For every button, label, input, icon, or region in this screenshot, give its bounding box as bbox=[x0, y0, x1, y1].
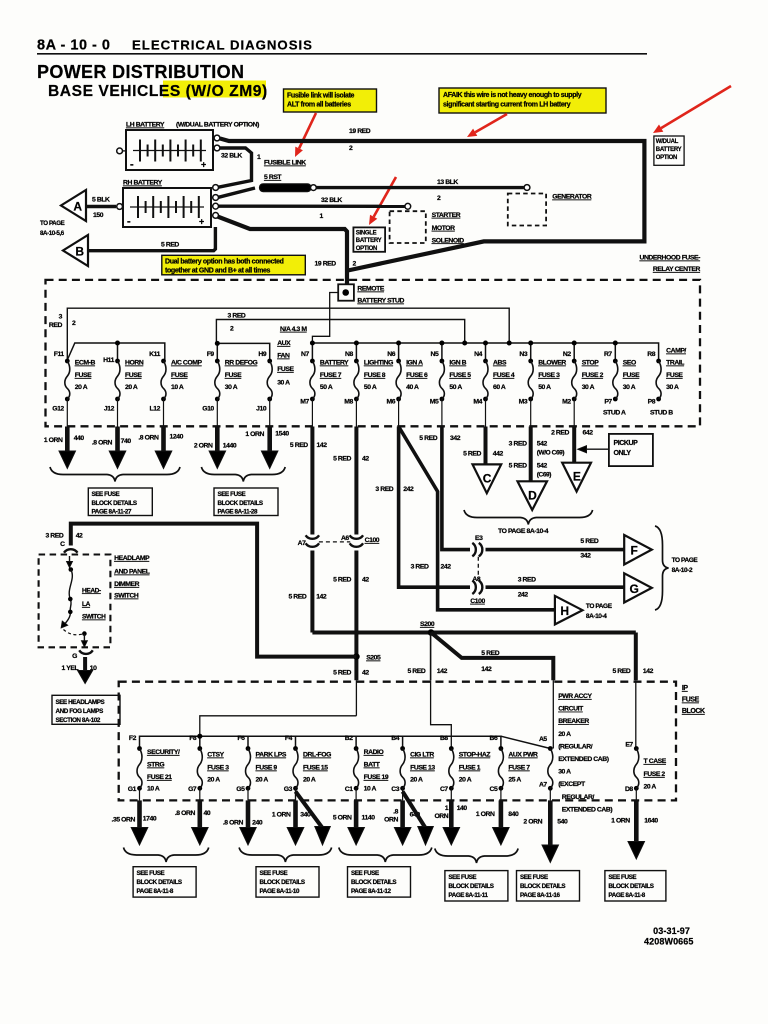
svg-text:C5: C5 bbox=[490, 786, 498, 793]
svg-text:FUSE 21: FUSE 21 bbox=[147, 774, 172, 781]
svg-text:R7: R7 bbox=[604, 351, 612, 358]
svg-text:AFAIK this wire is not heavy e: AFAIK this wire is not heavy enough to s… bbox=[443, 92, 582, 99]
svg-text:A8: A8 bbox=[472, 576, 480, 583]
svg-text:TRAIL: TRAIL bbox=[666, 360, 684, 367]
svg-text:BASE VEHICLES (W/O ZM9): BASE VEHICLES (W/O ZM9) bbox=[48, 83, 268, 100]
svg-text:N2: N2 bbox=[563, 351, 571, 358]
svg-text:C3: C3 bbox=[391, 786, 399, 793]
svg-text:E7: E7 bbox=[625, 742, 633, 749]
fuse N2/M2 STOP bbox=[572, 359, 577, 364]
yellow highlight W/O ZM9 bbox=[163, 81, 266, 98]
fusible link bbox=[218, 188, 255, 197]
svg-text:2 ORN: 2 ORN bbox=[523, 819, 542, 826]
arrow L12 .8 ORN 1240 bbox=[163, 399, 165, 427]
svg-text:C100: C100 bbox=[365, 537, 380, 544]
svg-text:1540: 1540 bbox=[275, 431, 289, 438]
fuse H9/J10 AUX bbox=[267, 359, 272, 364]
svg-text:SEE FUSE: SEE FUSE bbox=[520, 874, 548, 881]
arrow G10 2 ORN 1440 bbox=[216, 399, 218, 427]
fuse F9/G10 RR DEFOG bbox=[215, 359, 220, 364]
svg-text:RED: RED bbox=[49, 322, 63, 329]
svg-text:STUD B: STUD B bbox=[650, 410, 673, 417]
svg-text:BLOCK DETAILS: BLOCK DETAILS bbox=[218, 500, 263, 507]
svg-text:5 RED: 5 RED bbox=[333, 670, 351, 677]
svg-text:F8: F8 bbox=[189, 735, 197, 742]
see headlamps box bbox=[52, 695, 120, 724]
svg-text:BLOCK DETAILS: BLOCK DETAILS bbox=[137, 879, 182, 886]
svg-text:4208W0665: 4208W0665 bbox=[644, 936, 693, 946]
svg-text:BATTERY STUD: BATTERY STUD bbox=[357, 298, 404, 305]
svg-text:G: G bbox=[72, 653, 77, 660]
svg-text:20 A: 20 A bbox=[125, 384, 138, 391]
svg-text:FUSE 2: FUSE 2 bbox=[582, 372, 604, 379]
svg-text:N8: N8 bbox=[345, 351, 353, 358]
svg-text:CIRCUIT: CIRCUIT bbox=[558, 706, 584, 713]
svg-text:BREAKER: BREAKER bbox=[558, 718, 589, 725]
svg-text:5 RED: 5 RED bbox=[463, 451, 481, 458]
svg-text:HEADLAMP: HEADLAMP bbox=[114, 555, 150, 562]
svg-text:SWITCH: SWITCH bbox=[82, 614, 106, 621]
svg-text:A: A bbox=[73, 200, 82, 214]
svg-text:BLOWER: BLOWER bbox=[538, 360, 566, 367]
triangle H to page 8A-10-4 bbox=[555, 596, 583, 625]
svg-text:50 A: 50 A bbox=[449, 384, 462, 391]
triangle D bbox=[518, 481, 548, 510]
brace 8A-11-11 bbox=[435, 849, 518, 864]
svg-text:N4: N4 bbox=[474, 351, 482, 358]
svg-text:N6: N6 bbox=[387, 351, 395, 358]
svg-text:SECURITY/: SECURITY/ bbox=[147, 749, 180, 756]
arrow G5 .8 ORN 240 bbox=[247, 788, 249, 800]
fuse R7/P7 SEO bbox=[613, 359, 618, 364]
brace 8A-11-12 bbox=[339, 848, 432, 863]
svg-text:PAGE 8A-11-8: PAGE 8A-11-8 bbox=[608, 892, 645, 899]
wire M6 3 RED 242 straight to A8 bbox=[398, 399, 400, 427]
triangle B bbox=[63, 235, 88, 266]
fuse F8/G7 CTSY bbox=[197, 746, 202, 751]
svg-text:FUSE 9: FUSE 9 bbox=[256, 765, 278, 772]
svg-text:POWER DISTRIBUTION: POWER DISTRIBUTION bbox=[37, 62, 244, 82]
svg-text:840: 840 bbox=[508, 811, 519, 818]
svg-text:142: 142 bbox=[316, 594, 327, 601]
svg-text:OPTION: OPTION bbox=[356, 246, 377, 252]
svg-text:CAMP/: CAMP/ bbox=[666, 348, 686, 355]
fuse N3/M3 BLOWER bbox=[528, 359, 533, 364]
svg-text:B: B bbox=[75, 245, 84, 259]
svg-text:N7: N7 bbox=[301, 351, 309, 358]
svg-text:PWR ACCY: PWR ACCY bbox=[558, 693, 592, 700]
svg-text:.35 ORN: .35 ORN bbox=[111, 817, 135, 824]
brace 8A-11-8 bbox=[124, 848, 209, 863]
svg-text:642: 642 bbox=[583, 430, 594, 437]
feeder wire 3 RED 2 (line A) bbox=[67, 308, 509, 360]
svg-text:342: 342 bbox=[450, 435, 461, 442]
brace to page 8A-10-2 bbox=[655, 526, 669, 610]
splice S205 bbox=[353, 653, 360, 660]
box page 8A-11-11 bbox=[445, 871, 508, 901]
wire M7 5 RED 142 bbox=[311, 399, 313, 427]
svg-text:M8: M8 bbox=[344, 399, 353, 406]
svg-text:EXTENDED CAB): EXTENDED CAB) bbox=[558, 756, 609, 763]
svg-text:BLOCK: BLOCK bbox=[682, 708, 705, 715]
svg-text:LH BATTERY: LH BATTERY bbox=[126, 122, 165, 129]
svg-text:A7: A7 bbox=[298, 540, 306, 547]
fuse F4/G3 DRL-FOG bbox=[293, 746, 298, 751]
brace fuse details 8A-11-28 bbox=[201, 467, 285, 482]
svg-text:3 RED: 3 RED bbox=[45, 533, 63, 540]
fuse N5/M5 IGN B bbox=[440, 359, 445, 364]
box page 8A-11-16 bbox=[517, 871, 580, 901]
svg-text:J10: J10 bbox=[256, 406, 267, 413]
svg-text:H9: H9 bbox=[258, 351, 266, 358]
svg-text:FUSE 7: FUSE 7 bbox=[320, 372, 342, 379]
svg-text:N5: N5 bbox=[431, 351, 439, 358]
svg-text:FUSIBLE LINK: FUSIBLE LINK bbox=[264, 160, 306, 167]
svg-text:32 BLK: 32 BLK bbox=[221, 153, 242, 160]
svg-text:3 RED: 3 RED bbox=[375, 486, 393, 493]
wire E3 to F bbox=[486, 548, 625, 552]
brace 8A-11-10 bbox=[239, 848, 332, 863]
fuse B4/C3 CIG LTR bbox=[400, 746, 405, 751]
svg-text:ONLY: ONLY bbox=[614, 450, 632, 457]
fuse F6/G5 PARK LPS bbox=[246, 746, 251, 751]
svg-text:C: C bbox=[60, 541, 65, 548]
svg-text:ORN: ORN bbox=[434, 813, 448, 820]
fuse R8/P8 CAMP/ bbox=[656, 359, 661, 364]
svg-text:M5: M5 bbox=[430, 399, 439, 406]
svg-text:S200: S200 bbox=[420, 621, 435, 628]
svg-text:5 RED: 5 RED bbox=[288, 594, 306, 601]
svg-text:FUSE: FUSE bbox=[171, 372, 188, 379]
see fuse block details 8A-11-27 box bbox=[88, 488, 152, 516]
triangle G bbox=[624, 573, 652, 602]
svg-text:2 RED: 2 RED bbox=[551, 430, 569, 437]
connector C headlamp feed bbox=[64, 549, 78, 553]
svg-text:ELECTRICAL DIAGNOSIS: ELECTRICAL DIAGNOSIS bbox=[132, 38, 313, 53]
svg-text:.8 ORN: .8 ORN bbox=[223, 820, 244, 827]
svg-text:N/A 4.3 M: N/A 4.3 M bbox=[280, 326, 307, 333]
svg-text:20 A: 20 A bbox=[207, 777, 220, 784]
svg-text:FUSE 5: FUSE 5 bbox=[449, 372, 471, 379]
svg-text:40 A: 40 A bbox=[406, 384, 419, 391]
svg-text:CTSY: CTSY bbox=[207, 752, 224, 759]
svg-text:MOTOR: MOTOR bbox=[432, 225, 456, 232]
svg-text:5 ORN: 5 ORN bbox=[333, 815, 352, 822]
svg-text:142: 142 bbox=[317, 442, 328, 449]
svg-text:ECM-B: ECM-B bbox=[75, 360, 96, 367]
svg-text:BLOCK DETAILS: BLOCK DETAILS bbox=[92, 500, 137, 507]
arrow J10 1 ORN 1540 bbox=[269, 399, 271, 427]
svg-text:3 RED: 3 RED bbox=[518, 577, 536, 584]
svg-text:significant starting current f: significant starting current from LH bat… bbox=[443, 102, 571, 109]
fuse B6/C5 AUX PWR bbox=[499, 746, 504, 751]
svg-text:5 RED: 5 RED bbox=[481, 650, 499, 657]
svg-text:PAGE 8A-11-8: PAGE 8A-11-8 bbox=[137, 888, 174, 895]
svg-text:20 A: 20 A bbox=[75, 384, 88, 391]
svg-text:03-31-97: 03-31-97 bbox=[653, 926, 690, 936]
svg-text:8A - 10 - 0: 8A - 10 - 0 bbox=[37, 38, 110, 54]
svg-text:(C69): (C69) bbox=[537, 472, 551, 479]
svg-text:E: E bbox=[573, 470, 581, 484]
svg-text:M6: M6 bbox=[386, 399, 395, 406]
svg-text:42: 42 bbox=[362, 670, 369, 677]
svg-text:.8: .8 bbox=[393, 809, 398, 816]
svg-text:J12: J12 bbox=[104, 406, 115, 413]
svg-text:BATTERY: BATTERY bbox=[656, 147, 682, 153]
triangle F to page 8A-10-2 bbox=[624, 535, 652, 565]
svg-text:AND FOG LAMPS: AND FOG LAMPS bbox=[56, 708, 104, 715]
fuse K11/L12 A/C COMP bbox=[161, 359, 166, 364]
wire M5 5 RED 342 to E3 bbox=[441, 399, 443, 427]
svg-text:RR DEFOG: RR DEFOG bbox=[225, 360, 258, 367]
svg-text:5 BLK: 5 BLK bbox=[92, 197, 110, 204]
svg-text:AUX PWR: AUX PWR bbox=[508, 752, 538, 759]
svg-text:F11: F11 bbox=[54, 351, 65, 358]
svg-text:1 YEL: 1 YEL bbox=[62, 665, 79, 672]
svg-text:FUSE 6: FUSE 6 bbox=[406, 372, 428, 379]
svg-text:BLOCK DETAILS: BLOCK DETAILS bbox=[351, 879, 396, 886]
svg-text:50 A: 50 A bbox=[320, 384, 333, 391]
arrow C1 5 ORN 1140 bbox=[355, 788, 357, 800]
svg-text:20 A: 20 A bbox=[459, 777, 472, 784]
wire S205 to headlamp switch bbox=[71, 524, 357, 657]
wire M3 3 RED 542 bbox=[530, 399, 532, 427]
svg-text:SECTION 8A-102: SECTION 8A-102 bbox=[56, 717, 101, 724]
wire 32 BLK RH to starter solenoid bbox=[219, 204, 405, 208]
svg-text:FUSE 15: FUSE 15 bbox=[303, 765, 328, 772]
svg-text:BATTERY: BATTERY bbox=[356, 238, 382, 244]
arrow C5 1 ORN 840 bbox=[500, 788, 502, 800]
svg-text:SWITCH: SWITCH bbox=[114, 593, 139, 600]
IP fuse block dashed box bbox=[119, 682, 676, 801]
svg-text:19 RED: 19 RED bbox=[315, 261, 337, 268]
svg-text:10 A: 10 A bbox=[364, 786, 377, 793]
svg-text:REGULAR/: REGULAR/ bbox=[562, 794, 595, 801]
svg-text:5 RED: 5 RED bbox=[161, 242, 179, 249]
svg-text:30 A: 30 A bbox=[225, 384, 238, 391]
svg-text:30 A: 30 A bbox=[277, 380, 290, 387]
svg-text:G1: G1 bbox=[128, 786, 137, 793]
svg-text:5 RED: 5 RED bbox=[509, 463, 527, 470]
svg-text:5 RST: 5 RST bbox=[264, 174, 282, 181]
svg-text:D: D bbox=[528, 489, 537, 503]
svg-text:Dual battery option has both c: Dual battery option has both connected bbox=[165, 258, 284, 265]
svg-text:FUSE 3: FUSE 3 bbox=[538, 372, 560, 379]
svg-text:F2: F2 bbox=[129, 735, 137, 742]
fuse B8/C7 STOP-HAZ bbox=[449, 746, 454, 751]
svg-text:A6: A6 bbox=[341, 535, 349, 542]
wire 19 RED loop (LH battery to stud) bbox=[220, 139, 644, 271]
connector A8 C100 bbox=[472, 581, 476, 595]
svg-text:3 RED: 3 RED bbox=[228, 313, 246, 320]
brace under C D E bbox=[464, 510, 593, 525]
svg-text:G12: G12 bbox=[52, 406, 64, 413]
svg-text:19 RED: 19 RED bbox=[349, 128, 371, 135]
fuse E7/D8 T CASE bbox=[634, 746, 639, 751]
arrow G1 .35 ORN 1740 bbox=[139, 788, 141, 800]
pickup only pointer arrow bbox=[586, 448, 609, 450]
pickup only box bbox=[609, 434, 653, 466]
svg-text:5 RED: 5 RED bbox=[580, 538, 598, 545]
wire 13 BLK to generator bbox=[316, 186, 523, 189]
svg-text:20 A: 20 A bbox=[303, 777, 316, 784]
box page 8A-11-10 bbox=[256, 867, 319, 897]
circuit breaker A5/A7 PWR ACCY bbox=[548, 746, 553, 751]
arrow G3 1 ORN 340 bbox=[295, 788, 297, 800]
svg-text:SEE HEADLAMPS: SEE HEADLAMPS bbox=[56, 699, 105, 706]
svg-text:ORN: ORN bbox=[384, 817, 398, 824]
svg-text:1240: 1240 bbox=[170, 434, 184, 441]
svg-text:OPTION: OPTION bbox=[656, 155, 677, 161]
svg-text:FUSE 7: FUSE 7 bbox=[508, 765, 530, 772]
fuse F11/G12 ECM-B bbox=[65, 359, 70, 364]
svg-text:(EXCEPT: (EXCEPT bbox=[558, 781, 586, 788]
svg-text:140: 140 bbox=[457, 805, 468, 812]
fuse N7/M7 BATTERY bbox=[310, 359, 315, 364]
svg-text:SEE FUSE: SEE FUSE bbox=[260, 870, 288, 877]
fuse N6/M6 IGN A bbox=[396, 359, 401, 364]
svg-text:42: 42 bbox=[362, 456, 369, 463]
svg-text:1 ORN: 1 ORN bbox=[272, 812, 291, 819]
svg-text:25 A: 25 A bbox=[508, 777, 521, 784]
svg-text:A5: A5 bbox=[539, 736, 547, 743]
svg-text:A/C COMP: A/C COMP bbox=[171, 360, 203, 367]
svg-text:42: 42 bbox=[76, 533, 83, 540]
svg-text:30 A: 30 A bbox=[623, 384, 636, 391]
wire 5 BLK 150 bbox=[86, 205, 116, 208]
svg-text:together at GND and B+ at all: together at GND and B+ at all times bbox=[165, 267, 270, 274]
svg-text:.8 ORN: .8 ORN bbox=[92, 440, 113, 447]
svg-text:M3: M3 bbox=[519, 399, 528, 406]
svg-text:SEE FUSE: SEE FUSE bbox=[137, 870, 165, 877]
svg-text:K11: K11 bbox=[149, 351, 160, 358]
svg-text:STUD A: STUD A bbox=[603, 410, 626, 417]
bus segment 3 (N7-R8) bbox=[312, 343, 658, 361]
svg-text:SEE FUSE: SEE FUSE bbox=[448, 874, 476, 881]
svg-text:5 RED: 5 RED bbox=[290, 442, 308, 449]
note: AFAIK this wire bbox=[439, 88, 606, 113]
svg-text:PARK LPS: PARK LPS bbox=[256, 752, 287, 759]
svg-text:DIMMER: DIMMER bbox=[114, 581, 140, 588]
note: dual battery option bbox=[162, 255, 305, 274]
splice S200 bbox=[428, 629, 435, 636]
svg-text:ABS: ABS bbox=[493, 360, 507, 367]
wire S200 down to B8 feed bbox=[430, 633, 432, 681]
svg-text:FUSE 19: FUSE 19 bbox=[364, 774, 389, 781]
svg-text:FUSE: FUSE bbox=[225, 372, 242, 379]
svg-text:C7: C7 bbox=[440, 786, 448, 793]
svg-text:TO PAGE: TO PAGE bbox=[586, 603, 613, 610]
svg-text:HEAD-: HEAD- bbox=[82, 587, 101, 594]
svg-text:B4: B4 bbox=[391, 735, 399, 742]
svg-text:M7: M7 bbox=[300, 399, 309, 406]
svg-text:SEO: SEO bbox=[623, 360, 636, 367]
svg-text:FAN: FAN bbox=[277, 353, 290, 360]
svg-text:1640: 1640 bbox=[644, 818, 658, 825]
svg-text:1 ORN: 1 ORN bbox=[245, 431, 264, 438]
arrow G12 1 ORN 440 bbox=[66, 399, 68, 427]
wire S205 to IP bus bbox=[355, 680, 357, 716]
svg-text:30 A: 30 A bbox=[558, 769, 571, 776]
svg-text:BATTERY: BATTERY bbox=[320, 360, 349, 367]
svg-text:FUSE 2: FUSE 2 bbox=[644, 771, 666, 778]
svg-text:B2: B2 bbox=[345, 735, 353, 742]
wire M6 diagonal 3 RED 242 to H bbox=[399, 427, 555, 610]
svg-text:TO PAGE: TO PAGE bbox=[40, 220, 65, 227]
svg-text:M2: M2 bbox=[562, 399, 571, 406]
svg-text:142: 142 bbox=[643, 668, 654, 675]
svg-text:L12: L12 bbox=[150, 406, 161, 413]
svg-text:H: H bbox=[560, 604, 568, 618]
svg-text:240: 240 bbox=[252, 820, 263, 827]
wire 1 YEL 10 to headlamps bbox=[83, 657, 87, 672]
svg-text:5 RED: 5 RED bbox=[333, 456, 351, 463]
svg-text:242: 242 bbox=[441, 564, 452, 571]
svg-text:H11: H11 bbox=[103, 357, 114, 364]
fuse H11/J12 HORN bbox=[115, 359, 120, 364]
svg-text:TO PAGE: TO PAGE bbox=[672, 557, 699, 564]
svg-text:G3: G3 bbox=[284, 786, 293, 793]
wire M2 2 RED 642 bbox=[573, 399, 575, 427]
svg-text:SOLENOID: SOLENOID bbox=[432, 237, 465, 244]
svg-text:G10: G10 bbox=[202, 406, 214, 413]
triangle A to page 8A-10-5,6 bbox=[61, 190, 86, 221]
svg-text:1740: 1740 bbox=[143, 816, 157, 823]
svg-text:F6: F6 bbox=[237, 735, 245, 742]
svg-text:BLOCK DETAILS: BLOCK DETAILS bbox=[448, 883, 493, 890]
svg-text:(REGULAR/: (REGULAR/ bbox=[558, 743, 593, 750]
svg-text:STOP-HAZ: STOP-HAZ bbox=[459, 752, 491, 759]
svg-text:LIGHTING: LIGHTING bbox=[364, 360, 393, 367]
svg-text:PAGE 8A-11-28: PAGE 8A-11-28 bbox=[218, 508, 258, 515]
svg-text:+: + bbox=[201, 160, 206, 170]
arrow C3 diagonal bbox=[403, 792, 426, 829]
svg-text:BATT: BATT bbox=[364, 762, 381, 769]
svg-text:A7: A7 bbox=[539, 782, 547, 789]
svg-text:W/DUAL: W/DUAL bbox=[656, 139, 679, 145]
svg-text:542: 542 bbox=[537, 441, 548, 448]
svg-text:40: 40 bbox=[204, 810, 211, 817]
wire M8 5 RED 42 bbox=[355, 399, 357, 427]
svg-text:P7: P7 bbox=[604, 399, 612, 406]
connector A7 bbox=[306, 535, 320, 539]
svg-text:STRG: STRG bbox=[147, 762, 164, 769]
svg-text:+: + bbox=[199, 217, 204, 227]
svg-text:PAGE 8A-11-11: PAGE 8A-11-11 bbox=[448, 892, 488, 899]
svg-text:.8 ORN: .8 ORN bbox=[138, 435, 159, 442]
svg-text:150: 150 bbox=[93, 212, 104, 219]
svg-text:FUSE 8: FUSE 8 bbox=[364, 372, 386, 379]
headlamp switch dashed box bbox=[39, 555, 111, 648]
svg-text:50 A: 50 A bbox=[538, 384, 551, 391]
svg-text:60 A: 60 A bbox=[493, 384, 506, 391]
svg-text:SEE FUSE: SEE FUSE bbox=[218, 491, 246, 498]
wire S200 right to E7 feed bbox=[634, 633, 638, 681]
wire 19 RED 2 from RH battery to remote stud bbox=[218, 217, 348, 285]
svg-text:30 A: 30 A bbox=[666, 384, 679, 391]
svg-text:FUSE: FUSE bbox=[666, 372, 683, 379]
svg-text:TO PAGE 8A-10-4: TO PAGE 8A-10-4 bbox=[498, 528, 549, 535]
svg-text:1 ORN: 1 ORN bbox=[611, 818, 630, 825]
fuse B2/C1 RADIO bbox=[354, 746, 359, 751]
svg-text:BLOCK DETAILS: BLOCK DETAILS bbox=[520, 883, 565, 890]
svg-text:PAGE 8A-11-12: PAGE 8A-11-12 bbox=[351, 888, 391, 895]
svg-text:440: 440 bbox=[74, 435, 85, 442]
svg-text:P8: P8 bbox=[648, 399, 656, 406]
svg-text:PAGE 8A-11-16: PAGE 8A-11-16 bbox=[520, 892, 560, 899]
arrow G3 diagonal bbox=[295, 790, 297, 800]
wire 32 BLK LH bbox=[218, 148, 251, 187]
